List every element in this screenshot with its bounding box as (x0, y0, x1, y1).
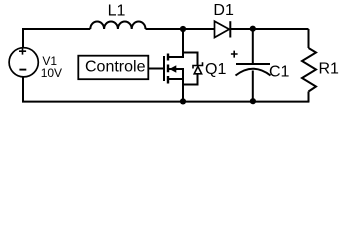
svg-text:Q1: Q1 (205, 61, 226, 78)
svg-text:10V: 10V (41, 66, 62, 80)
svg-text:R1: R1 (319, 61, 340, 78)
svg-text:C1: C1 (269, 64, 290, 81)
svg-text:L1: L1 (108, 3, 126, 20)
svg-text:Controle: Controle (85, 59, 146, 76)
svg-text:D1: D1 (213, 2, 234, 19)
